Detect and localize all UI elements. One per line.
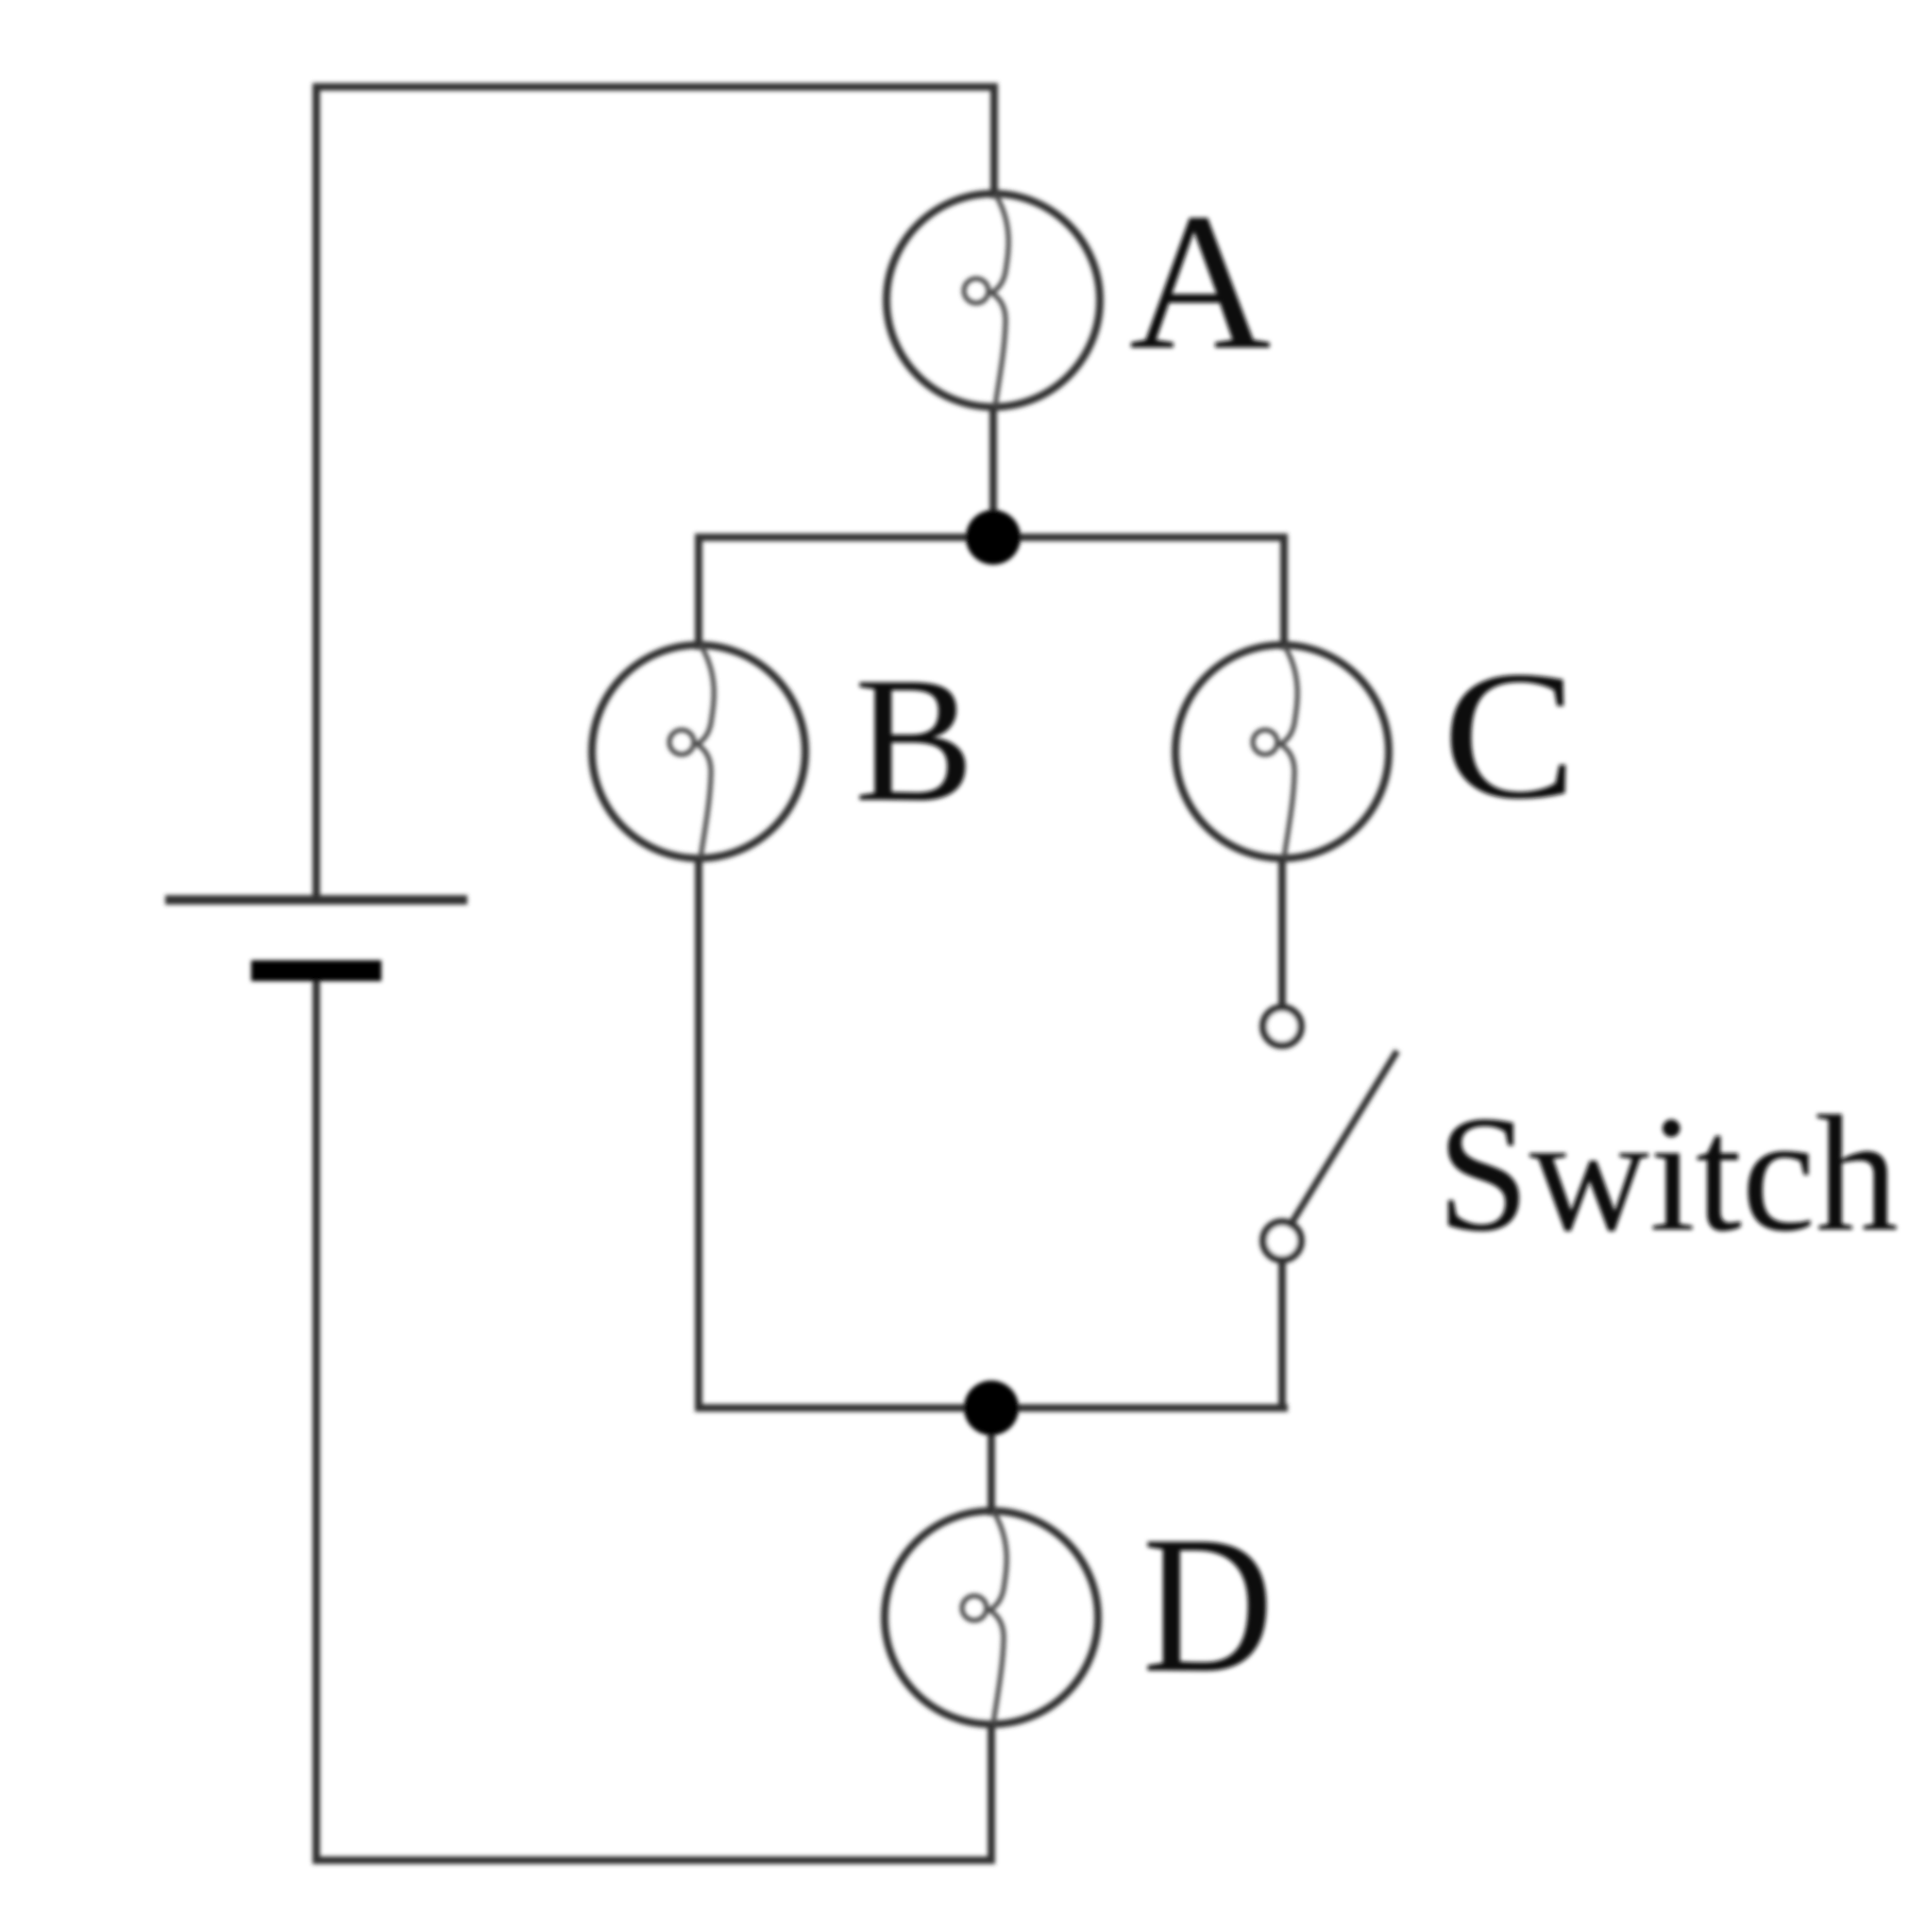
svg-text:C: C [1443,634,1577,838]
svg-text:Switch: Switch [1437,1082,1899,1266]
svg-text:A: A [1129,173,1271,390]
svg-text:B: B [854,641,974,839]
svg-text:D: D [1142,1496,1274,1713]
